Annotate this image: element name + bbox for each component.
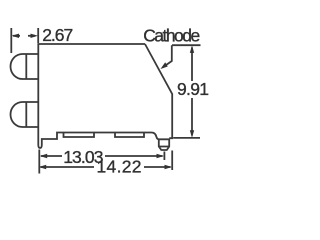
arrowhead 2.67 left bbox=[12, 34, 20, 38]
ext line bottom of 9.91 bbox=[173, 137, 200, 139]
standoff bar A bbox=[64, 133, 95, 138]
dim line 2.67 right segment bbox=[28, 35, 35, 37]
housing slant top-right bbox=[145, 44, 172, 138]
arrowhead 13.03 right bbox=[157, 154, 165, 158]
LED lens 1 bbox=[11, 54, 39, 79]
dim line 14.22 left segment bbox=[41, 166, 95, 168]
ext line right of 2.67 bbox=[37, 28, 39, 43]
ext line left of 2.67 bbox=[10, 28, 12, 53]
arrowhead 14.22 right bbox=[165, 165, 173, 169]
cathode leader line bbox=[163, 45, 172, 67]
dim line 13.03 left segment bbox=[41, 155, 62, 157]
ext line right of 13.03 bbox=[163, 152, 165, 161]
dim line 9.91 upper segment bbox=[191, 48, 193, 82]
ext line right of 14.22 bbox=[171, 151, 173, 171]
dim line 14.22 right segment bbox=[144, 166, 171, 168]
LED lens 2 bbox=[11, 102, 39, 127]
standoff bar B bbox=[115, 133, 144, 138]
ext line left of dims bbox=[38, 150, 40, 174]
dim line 13.03 right segment bbox=[105, 155, 163, 157]
lead boot pin 2 bbox=[159, 139, 169, 151]
svg-text:14.22: 14.22 bbox=[97, 156, 142, 176]
svg-text:Cathode: Cathode bbox=[143, 26, 200, 46]
arrowhead 9.91 down bbox=[190, 130, 194, 138]
svg-text:9.91: 9.91 bbox=[177, 79, 209, 99]
housing body outline bbox=[38, 44, 159, 148]
arrowhead cathode leader bbox=[161, 62, 168, 69]
dim line 2.67 left segment bbox=[13, 35, 20, 37]
arrowhead 9.91 up bbox=[190, 45, 194, 53]
ext line top of 9.91 bbox=[172, 44, 201, 46]
arrowhead 13.03 left bbox=[40, 154, 48, 158]
svg-text:2.67: 2.67 bbox=[42, 25, 73, 45]
dim line 9.91 lower segment bbox=[191, 98, 193, 135]
arrowhead 14.22 left bbox=[39, 165, 47, 169]
arrowhead 2.67 right bbox=[31, 34, 39, 38]
